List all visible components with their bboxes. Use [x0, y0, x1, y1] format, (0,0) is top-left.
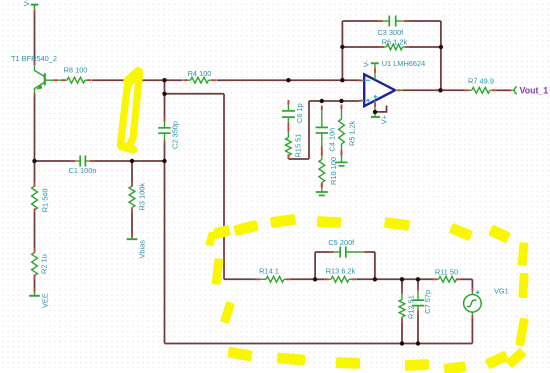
wire node A2 down left side of loop — [164, 161, 166, 344]
junction node R6 right — [439, 45, 443, 49]
wire V+ rail to T1 collector — [34, 11, 36, 63]
junction node B (R8/R4/C2) — [162, 78, 166, 82]
capacitor C7 — [417, 286, 419, 300]
svg-text:R11 50: R11 50 — [435, 267, 458, 276]
resistor R6 — [380, 46, 387, 48]
svg-text:T1 BFR540_2: T1 BFR540_2 — [11, 54, 57, 63]
wire R2 to VEE terminal — [34, 280, 36, 289]
resistor R1 — [34, 182, 36, 186]
svg-text:R4 100: R4 100 — [188, 69, 212, 78]
wire feedback left vertical — [341, 21, 343, 80]
svg-text:R2 1u: R2 1u — [40, 254, 49, 274]
op-amp U1 LMH6624 — [364, 74, 395, 106]
junction node A2 (C2 bottom) — [162, 159, 166, 163]
resistor R5 — [341, 105, 343, 120]
transistor T1 BFR540_2 — [44, 73, 46, 85]
wire R8 to R4 — [92, 79, 183, 81]
wire to R14 — [224, 278, 256, 280]
junction node R5 top — [339, 99, 343, 103]
svg-text:R10 100: R10 100 — [329, 157, 338, 185]
junction node E (R14/R13/C5) — [313, 277, 317, 281]
wire R7 to Vout tag — [497, 89, 512, 91]
wire node D to R3 — [131, 161, 133, 182]
wire node E up to C5 — [314, 252, 316, 279]
resistor R10 — [321, 151, 323, 160]
svg-text:V+: V+ — [22, 0, 31, 6]
wire node F to R12 node — [375, 278, 434, 280]
resistor R7 — [465, 89, 472, 91]
svg-text:C1 100n: C1 100n — [69, 166, 97, 175]
wire R15 bottom corner — [288, 158, 309, 160]
resistor R14 — [256, 278, 267, 280]
resistor R13 — [324, 278, 331, 280]
wire node G to R12 — [401, 279, 403, 289]
wire T1 emitter down to node A — [34, 96, 36, 161]
ground under R10 — [321, 183, 323, 192]
svg-text:C4 10n: C4 10n — [328, 128, 337, 152]
power terminal Vbias — [131, 233, 133, 239]
wire feedback top left — [342, 20, 378, 22]
wire op-amp output to R7 — [402, 89, 465, 91]
wire R3 to Vbias terminal — [131, 213, 133, 235]
junction node H2 (C7 bottom) — [416, 341, 420, 345]
junction node H (C7 top) — [416, 277, 420, 281]
ground under R5 — [341, 151, 343, 162]
junction node R6 left — [340, 45, 344, 49]
highlighter dashed ellipse around lower network — [205, 231, 216, 247]
resistor R8 — [61, 79, 67, 81]
junction op-amp V+ node — [373, 110, 377, 114]
wire node C to right branch — [165, 93, 225, 95]
svg-text:R8 100: R8 100 — [64, 66, 88, 75]
capacitor C4 — [321, 106, 323, 128]
junction node C6 top — [286, 78, 290, 82]
junction node output — [438, 88, 442, 92]
resistor R2 — [34, 248, 36, 253]
power terminal VEE — [34, 288, 36, 296]
wire C5 right lead — [369, 251, 375, 253]
junction node A (emitter/C1/R1) — [32, 159, 36, 163]
resistor R11 — [433, 278, 439, 280]
junction node C (C2 top branch) — [162, 92, 166, 96]
svg-text:R15 51: R15 51 — [293, 134, 302, 158]
svg-text:R7 49.9: R7 49.9 — [468, 77, 494, 86]
capacitor C1 — [71, 160, 81, 162]
junction node feedback input — [340, 78, 344, 82]
wire R4 to op-amp inverting input — [217, 79, 360, 81]
resistor R12 — [401, 289, 403, 300]
resistor R15 — [287, 127, 289, 138]
wire feedback right vertical — [440, 21, 442, 90]
wire node B down to C2 — [164, 80, 166, 118]
svg-text:R6 1.2k: R6 1.2k — [382, 37, 408, 46]
capacitor C2 — [164, 117, 166, 128]
svg-text:C3 300f: C3 300f — [377, 28, 404, 37]
svg-text:C7 57p: C7 57p — [423, 290, 432, 314]
junction node G2 (R12 bottom) — [400, 341, 404, 345]
power terminal V+ top left — [34, 5, 36, 10]
wire bottom rail up to VG1 — [471, 318, 473, 344]
junction node D (C1/R3) — [130, 159, 134, 163]
svg-text:VG1: VG1 — [494, 286, 509, 295]
wire node A to C1 — [35, 160, 71, 162]
wire R6 right lead — [409, 46, 441, 48]
wire C5 left lead — [315, 251, 329, 253]
capacitor C6 — [287, 100, 289, 111]
junction node F (R13/C5 right) — [373, 277, 377, 281]
svg-text:Vout_1: Vout_1 — [520, 85, 549, 95]
highlighter mark vertical stroke — [121, 74, 140, 148]
svg-text:Vbias: Vbias — [138, 240, 147, 259]
svg-text:R3 100k: R3 100k — [137, 183, 146, 211]
wire R13 to node F — [356, 278, 375, 280]
wire node H to C7 — [417, 279, 419, 286]
wire C2 to node A2 — [164, 145, 166, 162]
junction node C4 top — [320, 99, 324, 103]
svg-text:VEE: VEE — [40, 293, 49, 308]
wire right branch down — [223, 94, 225, 279]
wire feedback top right — [409, 20, 441, 22]
svg-text:V-: V- — [361, 60, 370, 68]
wire op-amp V+ pin stub — [375, 106, 387, 112]
wire node A to R1 — [34, 161, 36, 182]
wire R1 to R2 — [34, 213, 36, 248]
resistor R4 — [183, 79, 191, 81]
svg-text:C5 200f: C5 200f — [328, 238, 355, 247]
svg-text:R5 1.2k: R5 1.2k — [347, 120, 356, 146]
wire R14 to node E — [291, 278, 316, 280]
svg-text:R13 6.2k: R13 6.2k — [326, 266, 356, 275]
wire C1 to node A2 — [95, 160, 165, 162]
capacitor C3 — [378, 20, 389, 22]
wire C7 to bottom rail — [417, 315, 419, 344]
svg-text:R12 51: R12 51 — [406, 295, 415, 319]
resistor R3 — [131, 182, 133, 186]
capacitor C5 — [329, 251, 340, 253]
output tag Vout_1 — [508, 89, 512, 91]
wire node E to R13 — [315, 278, 324, 280]
svg-text:U1 LMH6624: U1 LMH6624 — [382, 59, 426, 68]
wire corner up to noninverting net — [308, 101, 310, 159]
svg-text:C2 350p: C2 350p — [171, 121, 180, 149]
wire VG1 top lead — [471, 279, 473, 289]
wire C5 down to node F — [374, 252, 376, 279]
junction node G (R12 top) — [400, 277, 404, 281]
svg-text:V+: V+ — [379, 115, 388, 124]
wire bottom rail — [165, 343, 473, 345]
wire R6 left lead — [342, 46, 379, 48]
wire R12 to bottom rail — [401, 323, 403, 344]
wire noninverting input — [309, 100, 360, 102]
svg-text:R1 540: R1 540 — [40, 188, 49, 212]
svg-text:C6 1p: C6 1p — [295, 103, 304, 123]
wire R11 to VG1 corner — [461, 278, 473, 280]
svg-text:R14 1: R14 1 — [259, 266, 279, 275]
voltage source VG1 — [464, 295, 482, 313]
